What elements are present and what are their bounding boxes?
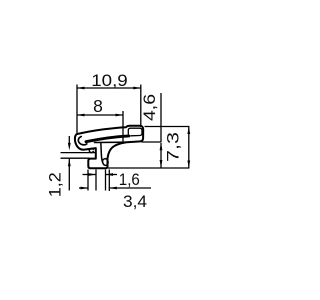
svg-text:8: 8 bbox=[93, 96, 103, 116]
svg-text:4,6: 4,6 bbox=[141, 94, 159, 121]
svg-text:1,2: 1,2 bbox=[47, 172, 65, 197]
svg-text:7,3: 7,3 bbox=[165, 132, 183, 162]
svg-text:3,4: 3,4 bbox=[123, 193, 147, 211]
svg-text:10,9: 10,9 bbox=[91, 72, 128, 90]
svg-text:1,6: 1,6 bbox=[119, 171, 140, 189]
